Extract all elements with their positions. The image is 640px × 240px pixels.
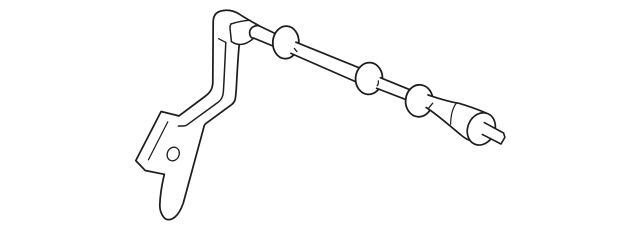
cable boot cap at bracket	[250, 25, 259, 38]
bend crease dash on arm front	[219, 39, 226, 43]
sensor taper top edge	[428, 95, 486, 113]
grommet 1	[272, 25, 300, 59]
cable boot bottom line	[254, 38, 273, 46]
bracket bend facet top line	[231, 20, 250, 24]
cable segment 1 body fill	[291, 42, 359, 81]
arm right outline continuing into plate right edge and foot	[160, 45, 239, 220]
sensor tab outline	[482, 123, 505, 144]
sensor body fill	[426, 95, 490, 141]
grommet 1 exit crease dash	[294, 48, 297, 51]
cable boot top line	[259, 26, 275, 34]
sensor taper bottom edge	[426, 108, 470, 141]
cable segment 2 upper line	[380, 78, 409, 90]
plate flange crease	[148, 122, 167, 160]
bracket bend facet left edge	[230, 24, 231, 42]
arm middle crease	[178, 42, 225, 126]
grommet 3 exit crease dash	[429, 103, 433, 108]
cable segment 1 upper line	[296, 42, 359, 67]
cable segment 2 body fill	[377, 78, 410, 100]
cable segment 1 lower line	[291, 53, 356, 81]
grommet 2	[354, 61, 383, 95]
plate hole	[165, 145, 182, 163]
grommet 2 exit crease	[377, 81, 378, 86]
sensor tab fill	[482, 123, 505, 144]
grommet 3	[404, 84, 434, 118]
sensor boot-cylinder junction arc	[451, 103, 457, 124]
cable segment 2 lower line	[377, 88, 407, 100]
bracket arm left outline with elbow and top edge	[179, 10, 259, 116]
plate outline: top edge, left edge, notch	[136, 112, 179, 175]
bracket bend facet bottom curve	[231, 38, 253, 44]
sensor end face	[462, 108, 500, 149]
